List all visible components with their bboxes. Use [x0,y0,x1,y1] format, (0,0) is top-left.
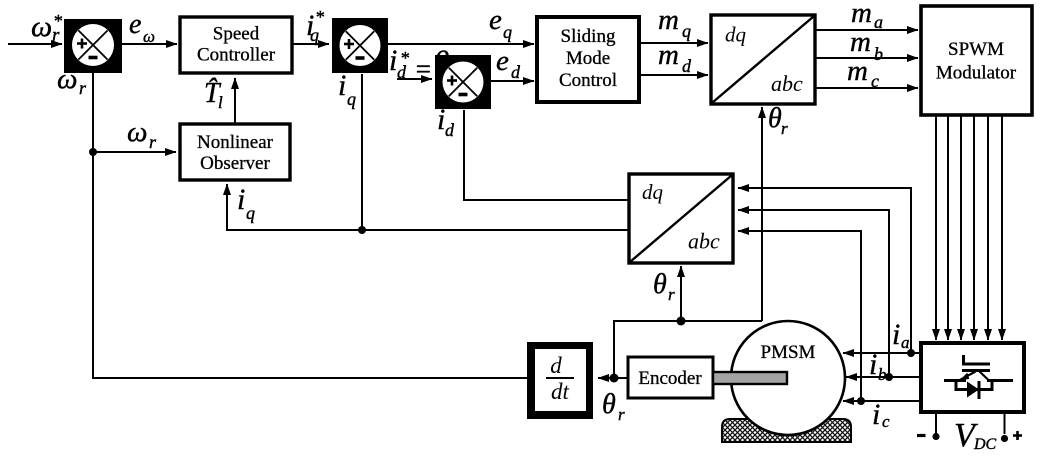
svg-text:e: e [496,45,509,77]
junction on i_a line [907,349,915,357]
svg-text:b: b [878,365,887,384]
svg-text:i: i [237,183,245,216]
svg-text:m: m [850,26,871,58]
svg-text:Nonlinear: Nonlinear [197,132,274,153]
wire: m_b to SPWM [815,57,918,59]
block: d/dt [527,342,593,419]
svg-text:i: i [872,398,880,431]
svg-text:ω: ω [31,10,52,43]
wire: m_c to SPWM [815,87,918,89]
summer S3 (d current error) [435,55,491,109]
svg-text:r: r [781,119,788,138]
wire: theta_r up into T2 [680,266,682,321]
junction on omega_r feedback [89,148,97,156]
svg-text:Encoder: Encoder [638,368,702,389]
wire: gate signal 4 [973,116,975,340]
svg-text:q: q [310,25,319,45]
svg-text:DC: DC [973,436,997,453]
svg-text:e: e [129,9,141,40]
wire: theta_r vertical riser [614,321,762,378]
wire: i_q branch up to summer S2 [361,74,363,230]
svg-text:i: i [338,69,346,102]
wire: phase c into PMSM [843,400,921,402]
svg-text:d: d [445,120,455,140]
svg-text:a: a [874,12,883,32]
svg-text:Control: Control [559,70,617,91]
wire: omega_r branch into observer [93,151,176,153]
svg-text:*: * [315,7,324,27]
block: inverter [921,343,1024,412]
svg-text:θ: θ [768,103,782,134]
block: Encoder [628,357,713,398]
svg-text:dq: dq [642,180,664,204]
wire: i_d* input to summer S3 [397,78,432,80]
wire: speed reference input [8,43,62,45]
svg-text:m: m [658,4,679,36]
block: SPWM Modulator [921,6,1032,115]
svg-text:m: m [658,39,679,71]
svg-text:q: q [682,21,691,41]
svg-text:SPWM: SPWM [948,39,1004,60]
svg-text:c: c [882,412,890,431]
terminal dot negative [932,433,939,440]
summer S1 (speed error) [64,19,122,73]
wire: i_c feedback into T2 [738,231,861,401]
svg-text:m: m [851,0,872,29]
svg-text:r: r [149,132,157,152]
wire: i_d from T2 to summer S3 [464,110,629,200]
svg-text:m: m [847,55,868,87]
block: dq/abc transform T2 (current) [629,174,733,263]
svg-text:d: d [550,353,562,378]
wire: i_b feedback into T2 [738,210,889,377]
wire: i_q from T2 to Nonlinear Observer [227,184,629,230]
wire: m_a to SPWM [815,29,918,31]
motor mount base [722,419,851,442]
wire: phase a into PMSM [843,352,921,354]
wire: DC positive stub [1004,412,1006,434]
block: Speed Controller [180,17,292,73]
svg-text:θ: θ [653,269,667,300]
wire: gate signal 6 [1001,116,1003,340]
svg-text:*: * [53,11,62,31]
svg-text:PMSM: PMSM [761,342,816,363]
svg-text:r: r [79,78,87,98]
svg-text:*: * [400,48,409,68]
svg-text:Speed: Speed [213,24,260,45]
wire: theta_r up into transform T1 [761,107,763,321]
svg-text:abc: abc [771,71,803,96]
svg-text:q: q [503,22,512,42]
svg-text:e: e [489,4,502,36]
svg-text:i: i [892,318,900,351]
wire: i_a feedback into T2 [738,188,911,353]
svg-text:l: l [218,93,223,112]
junction theta_r at T2 branch [677,317,686,326]
svg-text:dq: dq [725,23,747,47]
block: Nonlinear Observer [180,124,290,180]
svg-text:dt: dt [551,379,570,404]
terminal dot positive [1001,435,1008,442]
wire: e_q from S2 to Sliding Mode Control [388,43,534,45]
svg-text:d: d [682,56,692,76]
block: Sliding Mode Control [537,17,639,102]
svg-text:r: r [618,405,625,424]
svg-text:q: q [347,89,356,109]
summer S2 (q current error) [332,18,388,73]
wire: theta_r from encoder into d/dt [598,377,628,379]
svg-text:θ: θ [602,389,616,420]
wire: gate signal 5 [987,116,989,340]
motor PMSM [731,321,845,435]
wire: DC negative stub [935,412,937,433]
svg-text:Mode: Mode [566,48,610,69]
svg-text:c: c [871,71,879,91]
node: plus label [1013,434,1022,437]
svg-text:Sliding: Sliding [561,26,616,47]
svg-text:i: i [869,348,877,381]
svg-text:q: q [246,203,255,223]
wire: e_omega from S1 to Speed Controller [122,43,177,45]
wire: T_l hat from observer to Speed Controller [234,78,236,124]
junction on i_b line [885,373,893,381]
svg-text:r: r [668,285,675,304]
svg-text:Modulator: Modulator [936,63,1017,84]
wire: i_q* from Speed Controller to summer S2 [292,43,329,45]
svg-text:b: b [874,44,883,64]
wire: e_d from S3 to Sliding Mode Control [491,80,534,82]
junction theta_r [610,374,619,383]
wire: m_q to dq/abc transform T1 [639,42,708,44]
junction on i_q line [358,226,366,234]
svg-text:Controller: Controller [197,45,276,66]
svg-text:a: a [901,333,910,352]
svg-text:ω: ω [143,27,155,46]
transistor IGBT with diode [944,355,1013,399]
svg-text:ω: ω [57,63,77,95]
wire: gate signal 2 [947,116,949,340]
svg-text:Observer: Observer [200,153,270,174]
wire: phase b into PMSM [846,376,921,378]
shaft [713,372,787,384]
svg-text:d: d [511,62,521,82]
svg-text:ω: ω [127,116,147,148]
block: dq/abc transform T1 [711,15,815,104]
wire: gate signal 3 [960,116,962,340]
wire: m_d to dq/abc transform T1 [639,74,708,76]
wire: gate signal 1 [935,116,937,340]
junction on i_c line [857,397,865,405]
node: minus label [917,434,926,437]
wire: omega_r feedback from d/dt to summer S1 [93,73,527,378]
svg-text:abc: abc [688,229,720,254]
